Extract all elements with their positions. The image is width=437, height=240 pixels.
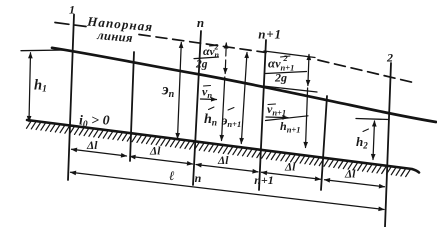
overline of vn: [204, 85, 211, 88]
dimension arrow h2: [373, 121, 375, 160]
energy grade line (напорная линия), dashed, left segment: [55, 23, 86, 27]
dimension arrow h1: [29, 53, 31, 122]
intermediate section line A: [130, 52, 134, 161]
channel bottom hatching: [27, 121, 411, 176]
dimension line dl segment n+1-B: [262, 172, 321, 179]
dimension arrow эn: [178, 43, 182, 139]
flourish tick over h2: [363, 129, 369, 132]
dimension line dl segment B-2: [325, 180, 385, 187]
channel bottom line: [27, 120, 419, 173]
svg-text:ℓ: ℓ: [169, 168, 175, 183]
water surface curve: [52, 48, 436, 122]
section line 1: [68, 15, 74, 181]
svg-text:2: 2: [386, 51, 393, 65]
fraction bar of vn+1/hn+1: [266, 116, 309, 121]
overline of vn+1 label: [268, 103, 276, 106]
fraction bar of alpha*vn^2/2g: [194, 57, 219, 59]
energy level reference line at section n+1: [264, 51, 315, 58]
dimension line dl segment 1-A: [72, 149, 127, 156]
flourish tick over hn: [209, 107, 215, 110]
fraction bar of alpha*vn+1^2/2g: [266, 72, 307, 74]
dimension arrow эn+1: [241, 53, 247, 144]
flow direction arrow under vn+1: [266, 116, 288, 119]
overline of vn+1 in fraction: [281, 56, 291, 57]
section line n+1: [259, 40, 266, 190]
svg-text:n: n: [197, 15, 204, 30]
velocity head double arrow at section n+1: [308, 55, 309, 86]
water level reference tick at section 2 (top of h2): [356, 119, 389, 120]
svg-text:n+1: n+1: [258, 27, 282, 42]
svg-text:Δl: Δl: [284, 162, 296, 174]
svg-text:2g: 2g: [274, 71, 287, 85]
energy grade line, right dashed segment: [318, 60, 412, 82]
svg-text:n: n: [195, 171, 202, 185]
svg-text:αvn2: αvn2: [203, 43, 220, 60]
overall dimension line l: [71, 172, 385, 209]
svg-text:1: 1: [69, 3, 75, 17]
svg-text:2g: 2g: [195, 59, 208, 71]
velocity head arrow at section n (down to water surface): [224, 60, 227, 74]
section line n: [193, 31, 201, 185]
flourish tick over эn+1: [228, 108, 234, 111]
svg-text:Δl: Δl: [344, 169, 356, 181]
dimension line dl segment A-n: [130, 156, 193, 164]
dimension line dl segment n-n+1: [196, 165, 258, 172]
overline of vn in fraction: [210, 45, 217, 48]
svg-text:n+1: n+1: [254, 173, 274, 187]
svg-text:Δl: Δl: [86, 140, 98, 152]
intermediate section line B: [321, 96, 327, 190]
water level reference line at section n+1: [263, 86, 317, 92]
energy grade line, middle dashed segment: [139, 35, 266, 53]
svg-text:Δl: Δl: [217, 155, 229, 167]
svg-text:Δl: Δl: [149, 146, 161, 158]
velocity head arrow at section n (upper part, up to energy line): [225, 43, 228, 56]
water level reference tick at section 1 (top of h1): [21, 49, 66, 52]
flow direction arrow under vn: [201, 98, 217, 101]
dimension arrow hn (down to channel bottom): [222, 77, 225, 141]
dimension arrow hn+1 (down to channel bottom): [306, 88, 308, 148]
section line 2: [385, 63, 391, 227]
